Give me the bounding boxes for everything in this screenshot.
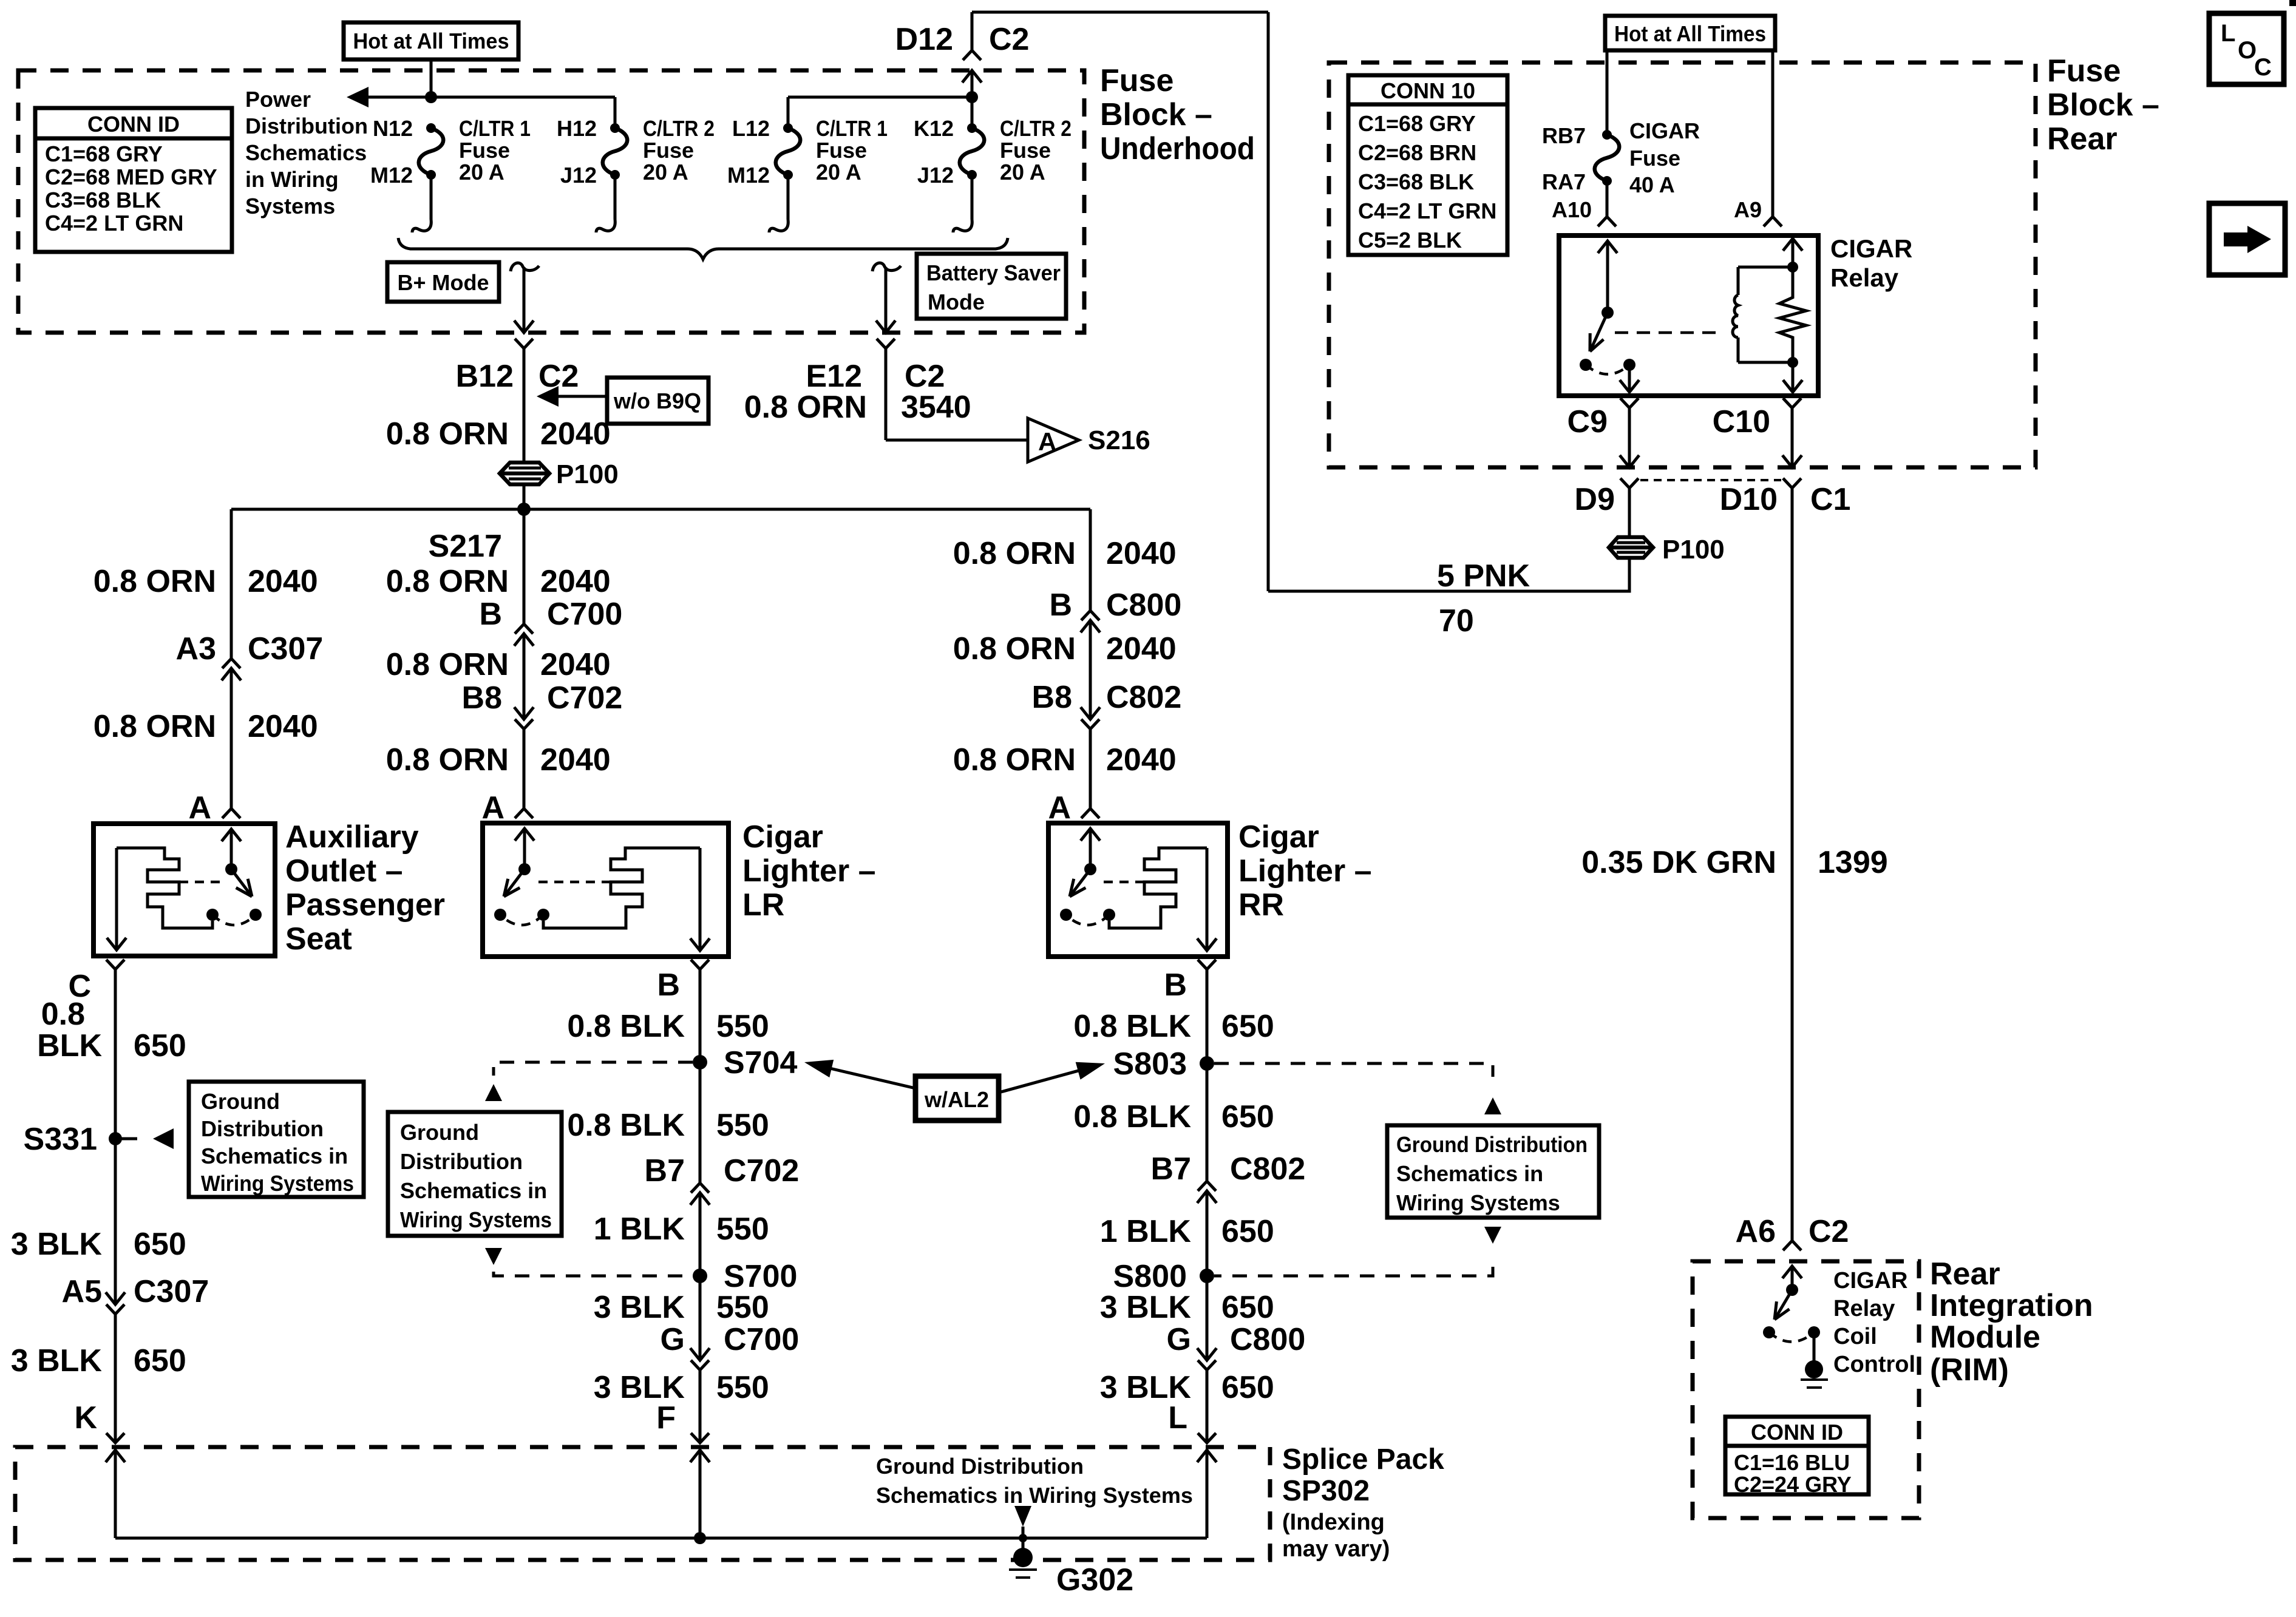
- svg-text:C800: C800: [1230, 1322, 1305, 1357]
- svg-text:Schematics in Wiring Systems: Schematics in Wiring Systems: [876, 1483, 1193, 1508]
- svg-text:Wiring Systems: Wiring Systems: [201, 1171, 354, 1196]
- CIGAR relay box: [1559, 236, 1818, 396]
- svg-text:Power: Power: [245, 87, 311, 112]
- Battery Saver Mode label box: [917, 254, 1066, 319]
- svg-text:0.8 ORN: 0.8 ORN: [93, 709, 216, 744]
- svg-text:C802: C802: [1106, 680, 1181, 715]
- wire pin A9: [1771, 50, 1775, 217]
- svg-text:K12: K12: [914, 116, 954, 141]
- CONN ID table (underhood): [35, 108, 232, 252]
- dashed-path arrow up (right): [1484, 1097, 1501, 1114]
- svg-text:2040: 2040: [540, 416, 611, 452]
- svg-text:20 A: 20 A: [459, 160, 504, 185]
- wire 0.8 ORN 2040 from B12: [523, 348, 526, 464]
- w/AL2 pointer line to S704: [830, 1068, 915, 1088]
- svg-text:B+ Mode: B+ Mode: [397, 270, 489, 295]
- svg-text:Schematics in: Schematics in: [400, 1178, 547, 1203]
- cigar lighter - RR: [1048, 823, 1228, 957]
- svg-text:S800: S800: [1113, 1259, 1187, 1294]
- svg-text:Schematics: Schematics: [245, 140, 367, 165]
- svg-text:C1=68 GRY: C1=68 GRY: [1358, 111, 1476, 136]
- svg-text:5 PNK: 5 PNK: [1437, 558, 1530, 594]
- svg-text:Mode: Mode: [928, 290, 985, 314]
- junction pin F / bus: [694, 1532, 706, 1544]
- svg-text:RR: RR: [1238, 887, 1284, 923]
- svg-text:2040: 2040: [1106, 631, 1177, 666]
- svg-text:C702: C702: [547, 680, 622, 716]
- svg-text:F: F: [656, 1400, 676, 1436]
- arrow to Power Distribution Schematics: [347, 87, 369, 107]
- svg-text:650: 650: [1221, 1370, 1274, 1405]
- wire 1 BLK / 3 BLK 550 through S700: [699, 1193, 702, 1360]
- connector A5 C307: [106, 1292, 125, 1304]
- splice symbol A / S216: [1028, 418, 1079, 462]
- svg-text:CONN 10: CONN 10: [1381, 78, 1475, 103]
- wire 5 PNK 70 to D12: [1268, 557, 1629, 591]
- wire D9 to P100: [1628, 488, 1631, 538]
- svg-text:C307: C307: [134, 1274, 209, 1309]
- svg-text:D12: D12: [895, 22, 953, 57]
- connector G C800: [1197, 1348, 1217, 1360]
- relay switch: [1598, 241, 1617, 253]
- svg-text:1 BLK: 1 BLK: [594, 1212, 685, 1247]
- wire 3 BLK 550 to splice pack pin F: [699, 1370, 702, 1443]
- wire 0.8 ORN 2040 to B8 C802: [1089, 620, 1092, 719]
- connector splice pack pin F: [691, 1433, 709, 1443]
- svg-text:0.8 ORN: 0.8 ORN: [953, 742, 1076, 778]
- svg-text:650: 650: [1221, 1099, 1274, 1134]
- svg-text:Fuse: Fuse: [459, 138, 510, 163]
- svg-text:CONN ID: CONN ID: [87, 112, 180, 137]
- svg-text:A: A: [1048, 790, 1071, 825]
- svg-text:A9: A9: [1734, 197, 1762, 222]
- pass-through grommet P100 (rear): [1609, 537, 1653, 558]
- drop to fuse H12: [614, 97, 617, 128]
- connector B8 C802: [1081, 707, 1100, 719]
- svg-text:0.8 BLK: 0.8 BLK: [1073, 1099, 1191, 1134]
- svg-text:Ground: Ground: [201, 1089, 280, 1114]
- svg-text:A10: A10: [1552, 197, 1592, 222]
- splice S704: [693, 1055, 707, 1070]
- junction feed bus / N12 fuse: [425, 91, 437, 103]
- svg-text:Integration: Integration: [1930, 1288, 2093, 1323]
- connector D9: [1620, 478, 1639, 488]
- svg-text:B8: B8: [1032, 680, 1072, 715]
- svg-text:C/LTR 1: C/LTR 1: [816, 116, 888, 141]
- svg-text:Coil: Coil: [1833, 1324, 1877, 1349]
- svg-text:Fuse: Fuse: [1629, 146, 1680, 171]
- svg-text:SP302: SP302: [1282, 1475, 1370, 1507]
- fuse block rear dashed enclosure: [1329, 63, 2036, 467]
- connector pin A9: [1764, 217, 1782, 226]
- RIM switch arm: [1776, 1290, 1792, 1317]
- pass-through grommet P100: [500, 463, 549, 484]
- wire P100 to S217: [523, 483, 526, 509]
- svg-text:0.8 ORN: 0.8 ORN: [953, 536, 1076, 571]
- connector splice pack pin K: [106, 1433, 124, 1443]
- wire 0.8 BLK 650 through S803: [1206, 969, 1209, 1181]
- svg-text:C: C: [2254, 54, 2272, 81]
- svg-text:C2: C2: [989, 22, 1029, 57]
- svg-text:70: 70: [1439, 603, 1474, 639]
- svg-text:550: 550: [716, 1108, 769, 1143]
- wire 0.8 ORN 2040 to cigar lighter RR pin A: [1089, 729, 1092, 808]
- svg-text:0.8 ORN: 0.8 ORN: [93, 564, 216, 599]
- connector B7 C802: [1198, 1181, 1216, 1191]
- connector E12 C2: [877, 339, 895, 348]
- connector B7 C702: [691, 1183, 709, 1193]
- svg-text:BLK: BLK: [37, 1028, 102, 1063]
- relay resistor: [1783, 239, 1802, 251]
- svg-text:B8: B8: [462, 680, 502, 716]
- fuse feed bus right: [788, 96, 972, 99]
- fuse C/LTR 1 20 A (pins N12/M12): [426, 123, 436, 133]
- svg-text:C702: C702: [724, 1153, 799, 1188]
- svg-text:J12: J12: [560, 163, 597, 188]
- svg-text:0.8 ORN: 0.8 ORN: [744, 390, 867, 425]
- svg-text:may vary): may vary): [1282, 1536, 1390, 1562]
- svg-text:Seat: Seat: [285, 921, 352, 957]
- svg-text:Schematics in: Schematics in: [1396, 1161, 1543, 1186]
- connector pin A aux outlet: [222, 808, 240, 818]
- svg-text:C5=2 BLK: C5=2 BLK: [1358, 228, 1462, 253]
- svg-text:0.8 ORN: 0.8 ORN: [386, 416, 509, 452]
- splice S217 junction: [517, 503, 531, 516]
- connector pin B cigar lighter LR: [691, 960, 709, 969]
- splice S803: [1200, 1056, 1214, 1071]
- svg-text:B: B: [1049, 588, 1072, 623]
- svg-text:Fuse: Fuse: [1100, 63, 1173, 98]
- splice S700: [693, 1269, 707, 1283]
- svg-text:C2=24 GRY: C2=24 GRY: [1734, 1472, 1852, 1497]
- wire 3 BLK 650 to splice pack pin K: [114, 1314, 117, 1443]
- svg-text:Cigar: Cigar: [742, 819, 823, 855]
- wire 1 BLK / 3 BLK 650 through S800: [1206, 1191, 1209, 1360]
- wire 0.8 ORN 3540: [885, 348, 888, 440]
- svg-text:A: A: [481, 790, 504, 825]
- svg-text:550: 550: [716, 1212, 769, 1247]
- svg-text:2040: 2040: [540, 564, 611, 599]
- svg-text:2040: 2040: [1106, 742, 1177, 778]
- svg-text:Module: Module: [1930, 1320, 2040, 1355]
- svg-text:S216: S216: [1088, 425, 1150, 455]
- connector pin C aux outlet: [106, 960, 124, 969]
- svg-text:3540: 3540: [901, 390, 971, 425]
- svg-text:Cigar: Cigar: [1238, 819, 1319, 855]
- svg-text:A: A: [188, 790, 211, 825]
- dashed-path arrow down (left): [485, 1248, 502, 1265]
- svg-text:0.35 DK GRN: 0.35 DK GRN: [1581, 845, 1776, 880]
- drop to fuse L12: [787, 97, 790, 128]
- svg-text:20 A: 20 A: [816, 160, 861, 185]
- svg-text:G302: G302: [1056, 1562, 1133, 1598]
- svg-text:C4=2 LT GRN: C4=2 LT GRN: [45, 211, 183, 236]
- svg-text:in Wiring: in Wiring: [245, 167, 339, 192]
- svg-text:3 BLK: 3 BLK: [11, 1343, 103, 1378]
- svg-text:2040: 2040: [248, 709, 318, 744]
- svg-text:Splice Pack: Splice Pack: [1282, 1443, 1444, 1476]
- svg-text:P100: P100: [1662, 535, 1725, 564]
- svg-text:A5: A5: [62, 1274, 102, 1309]
- wire 0.8 ORN 2040 to B C800: [1089, 509, 1092, 611]
- page-edge mark: [2289, 0, 2296, 6]
- Hot at All Times label box (rear): [1605, 16, 1775, 50]
- S217 distribution bus: [231, 508, 1090, 511]
- svg-text:RA7: RA7: [1542, 169, 1586, 194]
- svg-text:2040: 2040: [1106, 536, 1177, 571]
- svg-text:G: G: [661, 1322, 685, 1357]
- svg-text:C2: C2: [905, 359, 945, 394]
- svg-text:C4=2 LT GRN: C4=2 LT GRN: [1358, 198, 1496, 223]
- svg-text:Underhood: Underhood: [1100, 131, 1255, 166]
- svg-text:0.8 BLK: 0.8 BLK: [567, 1009, 685, 1044]
- svg-text:Ground: Ground: [400, 1120, 479, 1145]
- note box: Ground Distribution Schematics in Wiring Systems (S803/S800): [1387, 1125, 1599, 1218]
- svg-text:3 BLK: 3 BLK: [1100, 1290, 1192, 1325]
- svg-text:650: 650: [134, 1227, 186, 1262]
- svg-text:0.8 BLK: 0.8 BLK: [1073, 1009, 1191, 1044]
- svg-text:Control: Control: [1833, 1352, 1915, 1377]
- svg-text:C10: C10: [1713, 404, 1770, 439]
- svg-text:Fuse: Fuse: [816, 138, 867, 163]
- battery saver feeder wire: [872, 263, 901, 271]
- fuse C/LTR 2 20 A (pins H12/J12): [610, 123, 620, 133]
- svg-text:40 A: 40 A: [1629, 172, 1675, 197]
- svg-text:650: 650: [1221, 1214, 1274, 1249]
- svg-text:P100: P100: [556, 459, 619, 489]
- svg-text:Fuse: Fuse: [643, 138, 694, 163]
- dashed-path arrow down (right): [1484, 1227, 1501, 1244]
- svg-text:C2: C2: [1809, 1214, 1849, 1249]
- auxiliary outlet - passenger seat: [93, 824, 275, 956]
- LOC page icon: [2209, 13, 2284, 84]
- svg-text:LR: LR: [742, 887, 784, 923]
- svg-text:S217: S217: [429, 529, 502, 564]
- svg-text:Block –: Block –: [2047, 87, 2159, 123]
- svg-text:2040: 2040: [540, 742, 611, 778]
- fuse feed bus left: [365, 96, 615, 99]
- wire 0.8 ORN 2040 to B8 C702: [523, 634, 526, 719]
- svg-text:Fuse: Fuse: [2047, 53, 2121, 89]
- svg-text:Wiring Systems: Wiring Systems: [400, 1207, 552, 1232]
- option box w/AL2 with arrows to S704 and S803: [915, 1076, 999, 1120]
- wire 0.8 ORN 2040 to A3 C307: [230, 509, 233, 659]
- svg-text:Distribution: Distribution: [245, 114, 368, 138]
- wire 3 BLK 650 to splice pack pin L: [1206, 1370, 1209, 1443]
- svg-text:M12: M12: [370, 163, 413, 188]
- junction feed bus / K12 fuse: [966, 91, 978, 103]
- svg-text:Hot at All Times: Hot at All Times: [1614, 21, 1766, 46]
- cigar lighter - LR: [483, 823, 729, 957]
- svg-text:S803: S803: [1113, 1046, 1187, 1082]
- svg-text:G: G: [1167, 1322, 1191, 1357]
- svg-text:650: 650: [134, 1028, 186, 1063]
- svg-text:D9: D9: [1575, 482, 1615, 517]
- svg-text:CIGAR: CIGAR: [1833, 1268, 1907, 1293]
- connector pin A cigar lighter RR: [1081, 808, 1099, 818]
- svg-text:Schematics in: Schematics in: [201, 1144, 348, 1168]
- relay coil: [1738, 266, 1793, 269]
- wire 0.35 DK GRN 1399: [1791, 488, 1794, 1241]
- splice S800: [1200, 1269, 1214, 1283]
- svg-text:0.8 ORN: 0.8 ORN: [386, 647, 509, 682]
- svg-text:0.8 ORN: 0.8 ORN: [386, 564, 509, 599]
- svg-text:Auxiliary: Auxiliary: [285, 819, 419, 855]
- svg-text:C1=16 BLU: C1=16 BLU: [1734, 1450, 1850, 1475]
- svg-text:(RIM): (RIM): [1930, 1352, 2009, 1388]
- svg-text:0.8 ORN: 0.8 ORN: [386, 742, 509, 778]
- svg-text:C700: C700: [547, 597, 622, 632]
- svg-text:C/LTR 2: C/LTR 2: [643, 116, 715, 141]
- svg-text:20 A: 20 A: [643, 160, 688, 185]
- connector D10 C1: [1783, 478, 1801, 488]
- wire 0.8 BLK 650 to A5 C307: [114, 969, 117, 1304]
- note box: Ground Distribution Schematics in Wiring Systems (S331): [189, 1082, 364, 1197]
- svg-text:Rear: Rear: [1930, 1256, 2000, 1292]
- B+ Mode label box: [387, 262, 499, 302]
- svg-text:L12: L12: [732, 116, 770, 141]
- svg-text:L: L: [1168, 1400, 1187, 1436]
- svg-text:Wiring Systems: Wiring Systems: [1396, 1190, 1560, 1215]
- svg-text:Lighter –: Lighter –: [1238, 853, 1372, 889]
- svg-text:650: 650: [1221, 1009, 1274, 1044]
- connector B C700: [515, 624, 533, 634]
- svg-text:Lighter –: Lighter –: [742, 853, 876, 889]
- svg-text:B7: B7: [1151, 1151, 1191, 1187]
- svg-text:CONN ID: CONN ID: [1751, 1420, 1843, 1445]
- svg-text:550: 550: [716, 1290, 769, 1325]
- splice pack SP302 dashed enclosure: [15, 1447, 1270, 1560]
- svg-text:A: A: [1038, 427, 1056, 456]
- svg-text:0.8 ORN: 0.8 ORN: [953, 631, 1076, 666]
- ground inside RIM: [1805, 1360, 1823, 1378]
- svg-text:C307: C307: [248, 631, 323, 666]
- note box: Ground Distribution Schematics in Wiring Systems (S704/S700): [388, 1112, 562, 1236]
- svg-text:3 BLK: 3 BLK: [11, 1227, 103, 1262]
- bus brace joining fuse outputs: [398, 238, 1008, 259]
- svg-text:w/AL2: w/AL2: [924, 1087, 989, 1112]
- splice pack internal bus: [115, 1537, 1207, 1540]
- svg-text:C2: C2: [538, 359, 579, 394]
- CONN ID table (RIM): [1725, 1417, 1869, 1494]
- fuse block underhood dashed enclosure: [18, 70, 1084, 333]
- svg-text:650: 650: [134, 1343, 186, 1378]
- svg-text:Systems: Systems: [245, 194, 335, 219]
- fuse C/LTR 1 20 A (pins L12/M12): [783, 123, 793, 133]
- svg-text:C3=68 BLK: C3=68 BLK: [1358, 169, 1474, 194]
- wire 0.8 ORN 2040 to aux outlet pin A: [230, 668, 233, 808]
- next-page arrow icon: [2209, 203, 2285, 275]
- svg-text:M12: M12: [727, 163, 770, 188]
- svg-text:D10: D10: [1720, 482, 1778, 517]
- svg-text:Fuse: Fuse: [1000, 138, 1051, 163]
- svg-text:Outlet –: Outlet –: [285, 853, 403, 889]
- svg-text:20 A: 20 A: [1000, 160, 1045, 185]
- svg-text:RB7: RB7: [1542, 123, 1586, 148]
- svg-text:Battery Saver: Battery Saver: [926, 260, 1061, 285]
- svg-text:Ground Distribution: Ground Distribution: [1396, 1132, 1588, 1157]
- svg-text:B: B: [479, 597, 502, 632]
- svg-text:L: L: [2221, 20, 2235, 47]
- connector pin A10: [1598, 217, 1616, 226]
- relay pin C10: [1783, 398, 1801, 408]
- svg-text:H12: H12: [557, 116, 597, 141]
- connector A3 C307: [222, 659, 240, 668]
- svg-text:B7: B7: [645, 1153, 685, 1188]
- svg-text:Ground Distribution: Ground Distribution: [876, 1454, 1084, 1479]
- svg-text:Hot at All Times: Hot at All Times: [353, 29, 509, 53]
- svg-text:C1=68 GRY: C1=68 GRY: [45, 141, 163, 166]
- svg-text:Block –: Block –: [1100, 97, 1212, 132]
- svg-text:C2=68 BRN: C2=68 BRN: [1358, 140, 1476, 165]
- svg-text:C/LTR 1: C/LTR 1: [459, 116, 531, 141]
- connector D12 C2 (into fuse block underhood): [971, 12, 974, 50]
- svg-text:B12: B12: [456, 359, 514, 394]
- svg-text:B: B: [1164, 968, 1187, 1003]
- dashed link S803 to ground distribution note (right): [1214, 1063, 1493, 1077]
- svg-text:2040: 2040: [540, 647, 611, 682]
- wire from Hot at All Times to fuse feed bus: [430, 59, 433, 97]
- svg-text:C3=68 BLK: C3=68 BLK: [45, 188, 161, 212]
- relay pin C9: [1620, 398, 1639, 408]
- relay switch arm: [1592, 313, 1608, 348]
- svg-text:J12: J12: [917, 163, 954, 188]
- connector G C700: [690, 1348, 710, 1360]
- connector pin A cigar lighter LR: [515, 808, 533, 818]
- w/AL2 pointer line to S803: [999, 1070, 1081, 1093]
- CIGAR fuse 40 A (pins RB7/RA7): [1606, 50, 1609, 135]
- svg-text:CIGAR: CIGAR: [1830, 234, 1912, 263]
- B+ mode feeder wire: [511, 263, 539, 271]
- ground lead G302: [1014, 1506, 1031, 1527]
- svg-text:Passenger: Passenger: [285, 887, 445, 923]
- svg-text:Relay: Relay: [1830, 263, 1899, 292]
- fuse C/LTR 2 20 A (pins K12/J12): [967, 123, 977, 133]
- connector B12 C2: [515, 339, 533, 348]
- svg-text:1 BLK: 1 BLK: [1100, 1214, 1192, 1249]
- svg-text:w/o B9Q: w/o B9Q: [613, 388, 701, 413]
- svg-text:A3: A3: [176, 631, 216, 666]
- svg-text:E12: E12: [806, 359, 862, 394]
- svg-text:B: B: [657, 968, 680, 1003]
- svg-text:C1: C1: [1810, 482, 1850, 517]
- wire 0.8 ORN 2040 to B C700: [523, 509, 526, 624]
- svg-text:S331: S331: [24, 1122, 97, 1157]
- svg-text:C9: C9: [1567, 404, 1608, 439]
- w/o B9Q option arrow: [607, 378, 708, 424]
- svg-text:C2=68 MED GRY: C2=68 MED GRY: [45, 164, 217, 189]
- svg-text:C802: C802: [1230, 1151, 1305, 1187]
- wire from D12 to rear P100 (top run): [972, 11, 1268, 14]
- dashed-path arrow up (left): [485, 1084, 502, 1101]
- svg-text:Rear: Rear: [2047, 121, 2118, 157]
- svg-text:Distribution: Distribution: [201, 1116, 324, 1141]
- wire to splice S216: [886, 439, 1028, 442]
- RIM cigar relay coil control driver: [1782, 1266, 1802, 1278]
- svg-text:0.8 BLK: 0.8 BLK: [567, 1108, 685, 1143]
- svg-text:550: 550: [716, 1009, 769, 1044]
- connector pin B cigar lighter RR: [1198, 960, 1216, 969]
- dashed link S704 to ground distribution note: [494, 1062, 693, 1076]
- svg-text:(Indexing: (Indexing: [1282, 1510, 1385, 1535]
- svg-text:2040: 2040: [248, 564, 318, 599]
- connector B8 C702: [514, 707, 534, 719]
- svg-text:Distribution: Distribution: [400, 1149, 523, 1174]
- connector B C800: [1081, 611, 1099, 620]
- svg-text:650: 650: [1221, 1290, 1274, 1325]
- svg-text:Relay: Relay: [1833, 1296, 1895, 1321]
- svg-text:S704: S704: [724, 1045, 798, 1080]
